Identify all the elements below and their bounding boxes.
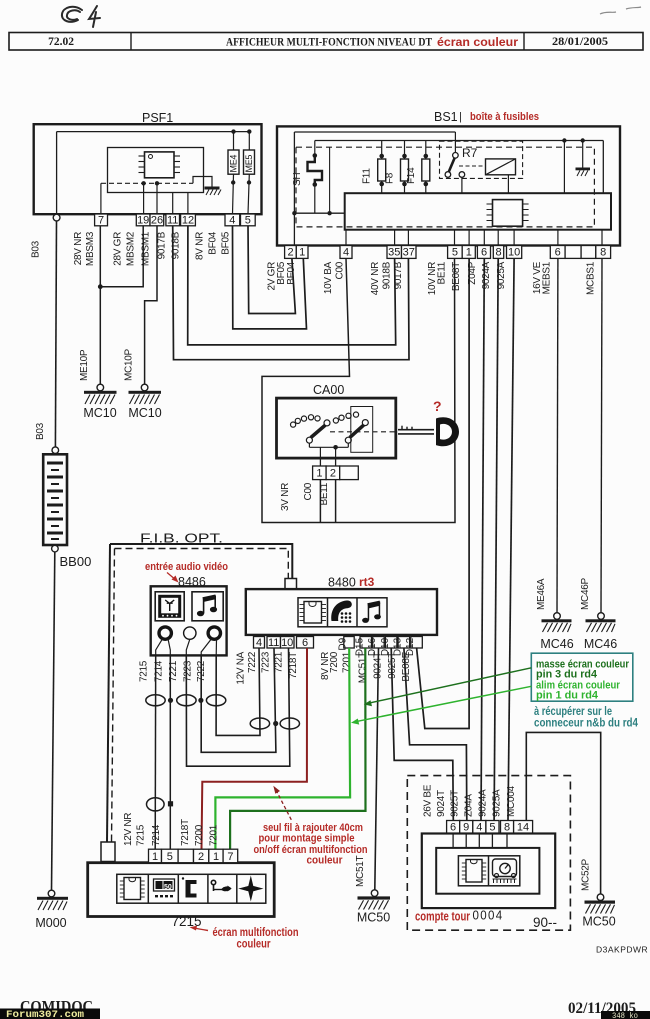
svg-text:9: 9 [463, 822, 469, 834]
svg-text:MC51T: MC51T [355, 856, 366, 887]
svg-text:B03: B03 [31, 240, 42, 258]
svg-text:MC46: MC46 [584, 637, 617, 651]
svg-text:couleur: couleur [307, 855, 344, 867]
svg-text:8V NR: 8V NR [195, 232, 206, 260]
svg-text:7222: 7222 [247, 651, 258, 673]
svg-text:2: 2 [330, 468, 336, 480]
svg-text:12V NA: 12V NA [236, 651, 247, 684]
svg-text:10: 10 [281, 637, 293, 649]
svg-text:0004: 0004 [473, 908, 504, 923]
svg-text:pour montage simple: pour montage simple [259, 833, 355, 845]
svg-text:MC10: MC10 [83, 406, 116, 420]
svg-text:7: 7 [98, 215, 104, 227]
svg-text:1: 1 [466, 247, 472, 259]
svg-text:|: | [459, 111, 462, 123]
svg-text:BE11: BE11 [319, 482, 330, 505]
svg-text:9024A: 9024A [478, 789, 489, 817]
svg-text:M000: M000 [35, 916, 66, 930]
svg-text:11: 11 [167, 215, 178, 227]
svg-text:AFFICHEUR MULTI-FONCTION NIVEA: AFFICHEUR MULTI-FONCTION NIVEAU DT [226, 37, 432, 49]
svg-text:ME4: ME4 [229, 155, 239, 173]
svg-text:MC46: MC46 [540, 637, 573, 651]
svg-text:MC10P: MC10P [124, 349, 135, 381]
svg-text:19: 19 [137, 215, 149, 227]
svg-text:10V BA: 10V BA [323, 261, 334, 294]
svg-text:7223: 7223 [183, 660, 194, 682]
svg-text:348 ko: 348 ko [612, 1012, 638, 1019]
svg-text:1: 1 [213, 851, 219, 863]
svg-text:3V NR: 3V NR [280, 483, 291, 511]
svg-text:40V NR: 40V NR [370, 262, 381, 295]
svg-text:7214: 7214 [151, 824, 162, 846]
svg-text:MC50: MC50 [582, 915, 615, 929]
svg-text:6: 6 [481, 247, 487, 259]
svg-text:BS1: BS1 [434, 110, 458, 124]
svg-text:pin 1 du rd4: pin 1 du rd4 [536, 690, 599, 702]
svg-text:5: 5 [452, 247, 458, 259]
svg-text:MBSM2: MBSM2 [126, 231, 137, 266]
svg-text:1: 1 [316, 468, 322, 480]
svg-text:MEBS1: MEBS1 [542, 261, 553, 294]
svg-text:2: 2 [198, 851, 204, 863]
svg-text:28V NR: 28V NR [73, 232, 84, 265]
svg-text:MC51T: MC51T [358, 652, 369, 683]
svg-text:ME10P: ME10P [79, 349, 90, 381]
svg-text:90--: 90-- [533, 915, 557, 930]
svg-text:rt3: rt3 [359, 575, 375, 589]
svg-text:7215: 7215 [136, 824, 147, 846]
svg-text:B03: B03 [35, 422, 46, 440]
svg-text:26: 26 [151, 215, 163, 227]
svg-text:BE08T: BE08T [451, 262, 462, 291]
svg-text:35: 35 [388, 247, 400, 259]
svg-text:BB00: BB00 [60, 554, 92, 569]
svg-text:compte tour: compte tour [415, 910, 470, 924]
svg-text:BE11: BE11 [437, 261, 448, 284]
svg-text:7223: 7223 [261, 651, 272, 673]
svg-text:9017B: 9017B [157, 231, 168, 259]
svg-text:D3AKPDWR: D3AKPDWR [596, 945, 648, 955]
svg-text:8: 8 [504, 822, 510, 834]
svg-text:5: 5 [167, 851, 173, 863]
svg-text:Forum307.com: Forum307.com [6, 1010, 84, 1019]
svg-text:6: 6 [450, 822, 456, 834]
svg-text:CA00: CA00 [313, 383, 344, 397]
svg-text:BF05: BF05 [221, 231, 232, 254]
svg-text:couleur: couleur [237, 939, 271, 951]
svg-text:R7: R7 [462, 146, 478, 160]
svg-text:5: 5 [489, 822, 495, 834]
svg-text:ME46A: ME46A [536, 578, 547, 610]
svg-text:4: 4 [229, 215, 235, 227]
svg-text:12V NR: 12V NR [123, 813, 134, 846]
svg-text:1: 1 [299, 247, 305, 259]
svg-text:12: 12 [182, 215, 194, 227]
svg-text:entrée audio vidéo: entrée audio vidéo [145, 561, 228, 573]
svg-text:72.02: 72.02 [48, 36, 74, 48]
svg-text:8: 8 [600, 247, 606, 259]
svg-text:6: 6 [302, 637, 308, 649]
svg-text:MC50: MC50 [357, 911, 390, 925]
svg-text:C00: C00 [335, 261, 346, 279]
svg-text:écran couleur: écran couleur [437, 35, 518, 49]
svg-text:PSF1: PSF1 [142, 111, 173, 125]
svg-text:14: 14 [517, 822, 529, 834]
svg-text:BF04: BF04 [208, 231, 219, 254]
svg-text:MC004: MC004 [506, 786, 517, 817]
svg-text:Z04A: Z04A [464, 794, 475, 817]
svg-text:MCBS1: MCBS1 [586, 261, 597, 295]
svg-text:MC10: MC10 [128, 406, 161, 420]
svg-text:MBSM3: MBSM3 [85, 231, 96, 266]
svg-text:9024T: 9024T [436, 790, 447, 817]
svg-text:9018B: 9018B [382, 261, 393, 289]
svg-text:BE08E: BE08E [401, 651, 412, 681]
svg-text:50: 50 [164, 884, 172, 891]
svg-text:1: 1 [152, 851, 158, 863]
svg-text:7: 7 [227, 851, 233, 863]
svg-text:8480: 8480 [328, 576, 356, 590]
svg-text:4: 4 [476, 822, 482, 834]
svg-text:2: 2 [287, 247, 293, 259]
svg-text:37: 37 [403, 247, 415, 259]
svg-text:8: 8 [495, 247, 501, 259]
svg-text:7201: 7201 [342, 651, 353, 673]
svg-text:7200: 7200 [194, 824, 205, 846]
svg-text:7201: 7201 [209, 824, 220, 846]
svg-text:MC52P: MC52P [581, 859, 592, 891]
svg-text:F8: F8 [385, 172, 396, 184]
svg-text:6: 6 [555, 247, 561, 259]
svg-text:9024A: 9024A [481, 261, 492, 289]
svg-text:écran multifonction: écran multifonction [213, 927, 299, 939]
svg-text:9025T: 9025T [450, 790, 461, 817]
svg-text:7218T: 7218T [180, 819, 191, 846]
svg-text:?: ? [433, 398, 442, 414]
svg-text:conneceur n&b du rd4: conneceur n&b du rd4 [534, 716, 638, 730]
svg-text:D9: D9 [338, 637, 349, 650]
svg-text:SH: SH [292, 173, 303, 186]
svg-text:9025A: 9025A [492, 789, 503, 817]
svg-text:4: 4 [256, 637, 262, 649]
svg-text:10: 10 [508, 247, 520, 259]
svg-text:MC46P: MC46P [580, 578, 591, 610]
svg-text:MBSM1: MBSM1 [141, 231, 152, 266]
svg-text:7215: 7215 [139, 660, 150, 682]
svg-text:11: 11 [268, 637, 279, 649]
svg-text:7218T: 7218T [288, 652, 299, 679]
svg-text:ME5: ME5 [244, 155, 254, 173]
svg-text:5: 5 [245, 215, 251, 227]
svg-text:28V GR: 28V GR [113, 232, 124, 266]
svg-text:C00: C00 [303, 482, 314, 500]
svg-text:28/01/2005: 28/01/2005 [552, 36, 608, 48]
svg-text:boîte à fusibles: boîte à fusibles [470, 111, 539, 123]
svg-text:F11: F11 [362, 168, 373, 184]
svg-text:F14: F14 [406, 167, 417, 184]
svg-text:7215: 7215 [172, 914, 202, 929]
svg-text:26V BE: 26V BE [423, 784, 434, 817]
svg-text:7200: 7200 [329, 651, 340, 673]
svg-text:4: 4 [343, 247, 349, 259]
